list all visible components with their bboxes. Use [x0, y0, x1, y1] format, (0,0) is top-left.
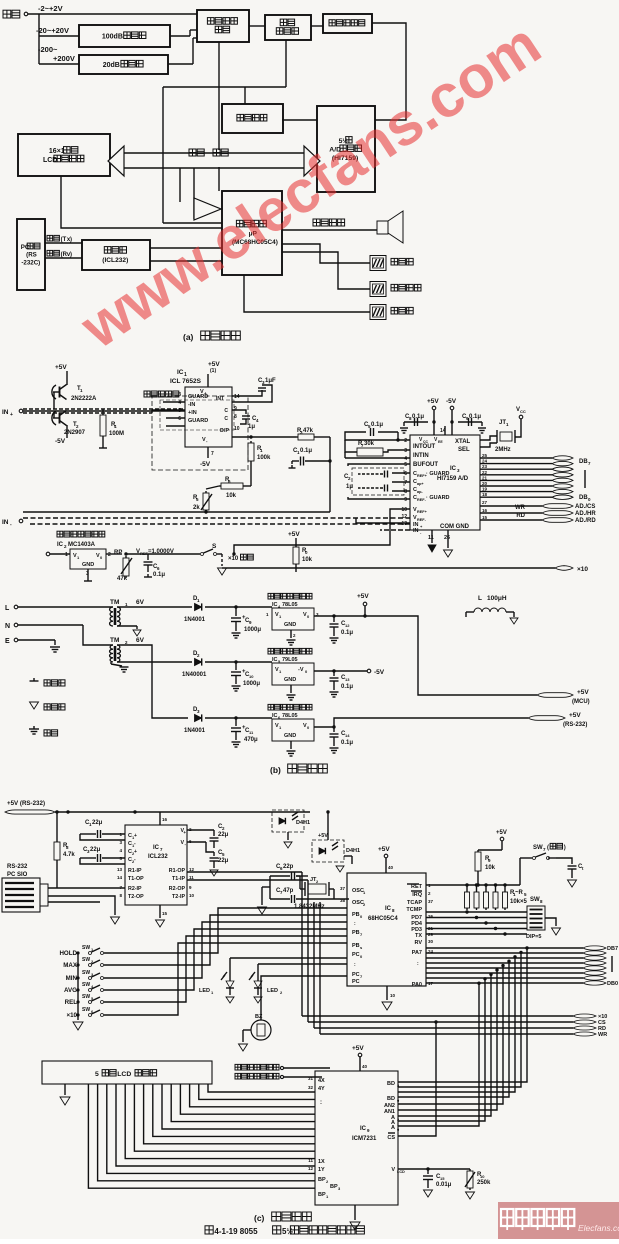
svg-text:+5V: +5V	[378, 846, 390, 853]
svg-text:+5V: +5V	[577, 689, 589, 696]
svg-text:78L05: 78L05	[282, 602, 298, 608]
svg-text:16×1: 16×1	[49, 148, 65, 155]
svg-text:+5V: +5V	[55, 364, 67, 371]
svg-text:D4H1: D4H1	[296, 820, 310, 826]
svg-text:ap+: ap+	[417, 482, 424, 486]
svg-text:1μF: 1μF	[265, 378, 276, 384]
svg-text:RP: RP	[114, 550, 122, 556]
svg-text:11: 11	[308, 1158, 313, 1163]
svg-text:12: 12	[345, 623, 350, 628]
svg-text:79L05: 79L05	[282, 657, 298, 663]
svg-text:BP: BP	[330, 1184, 338, 1190]
svg-text:1X: 1X	[318, 1159, 325, 1165]
svg-text:): )	[564, 845, 566, 851]
svg-text:10: 10	[390, 993, 396, 998]
svg-text:7: 7	[211, 451, 214, 457]
svg-text:SW: SW	[82, 945, 90, 951]
svg-text:+5V (RS-232): +5V (RS-232)	[7, 800, 45, 807]
svg-text:LED: LED	[199, 988, 210, 994]
svg-text:4: 4	[178, 400, 181, 406]
svg-text:13: 13	[345, 677, 350, 682]
svg-text:×10: ×10	[577, 566, 588, 573]
svg-text:32: 32	[308, 1085, 314, 1090]
svg-text:AD./RD: AD./RD	[575, 518, 596, 524]
svg-text:22μ: 22μ	[90, 847, 101, 853]
svg-text:PC: PC	[352, 972, 360, 978]
svg-text:8: 8	[234, 414, 237, 420]
svg-text:100dB: 100dB	[102, 34, 123, 41]
svg-text:RET: RET	[411, 884, 423, 890]
svg-text:15: 15	[440, 1176, 445, 1181]
svg-text:1000μ: 1000μ	[243, 681, 260, 687]
svg-text:SW: SW	[82, 994, 90, 1000]
svg-text:RS-232: RS-232	[7, 864, 28, 870]
svg-text:MAX: MAX	[63, 962, 78, 969]
svg-text:IC: IC	[57, 542, 64, 548]
svg-text:0.1μ: 0.1μ	[341, 630, 353, 636]
svg-text:15: 15	[482, 515, 488, 520]
svg-text:16: 16	[482, 508, 488, 513]
svg-text:-200~: -200~	[38, 45, 58, 54]
svg-text:24: 24	[482, 459, 488, 464]
svg-text:0.1μ: 0.1μ	[153, 572, 165, 578]
svg-text:GND: GND	[284, 622, 296, 628]
svg-text:13: 13	[117, 867, 123, 872]
svg-text:LCD: LCD	[117, 1071, 131, 1078]
svg-text:· GUARD: · GUARD	[426, 495, 450, 501]
svg-text:0.1μ: 0.1μ	[371, 422, 383, 428]
svg-text:+: +	[134, 833, 137, 839]
svg-text:+: +	[204, 391, 207, 396]
svg-text:+IN: +IN	[188, 410, 197, 416]
svg-text:+200V: +200V	[53, 54, 75, 63]
svg-text:LCD: LCD	[397, 1170, 405, 1174]
svg-text:37: 37	[340, 886, 346, 891]
svg-text:19: 19	[482, 487, 488, 492]
svg-text:4-1-19 8055: 4-1-19 8055	[214, 1227, 258, 1236]
svg-text:REF+: REF+	[417, 510, 428, 514]
svg-text:22μ: 22μ	[218, 858, 229, 864]
svg-text:HOLD: HOLD	[59, 950, 77, 957]
svg-text:N: N	[5, 623, 10, 630]
svg-text:~R: ~R	[515, 890, 524, 896]
svg-text:1N4001: 1N4001	[184, 728, 206, 734]
svg-text:25: 25	[482, 453, 488, 458]
svg-text:RV: RV	[414, 940, 422, 946]
svg-text:RD: RD	[516, 513, 525, 519]
svg-text:PB: PB	[352, 912, 360, 918]
svg-text:15: 15	[162, 911, 168, 916]
svg-text:CC: CC	[423, 440, 429, 444]
svg-text:100k: 100k	[257, 455, 271, 461]
svg-text:INT: INT	[216, 396, 224, 402]
svg-text:-5V: -5V	[55, 438, 66, 445]
svg-text:(: (	[547, 845, 549, 851]
svg-text:MIN: MIN	[66, 975, 78, 982]
svg-text:12: 12	[189, 867, 195, 872]
svg-text:SEL: SEL	[458, 447, 470, 453]
svg-text:0.1μ: 0.1μ	[341, 684, 353, 690]
svg-text:DB: DB	[579, 495, 588, 501]
svg-text:1μ: 1μ	[248, 424, 255, 430]
svg-text:-V: -V	[298, 667, 304, 673]
svg-text:-20~+20V: -20~+20V	[36, 26, 69, 35]
svg-text:6V: 6V	[136, 599, 145, 606]
svg-text:INTOUT: INTOUT	[413, 444, 436, 450]
svg-text:10k: 10k	[485, 865, 496, 871]
svg-text:40: 40	[388, 865, 394, 870]
svg-text:10: 10	[189, 893, 195, 898]
svg-text:BD: BD	[387, 1096, 395, 1102]
svg-text:0.01μ: 0.01μ	[436, 1182, 452, 1188]
svg-text:PA0: PA0	[412, 982, 422, 988]
svg-text:IC: IC	[177, 369, 184, 376]
svg-text:IN: IN	[2, 409, 9, 416]
svg-text:AVG: AVG	[64, 987, 77, 994]
svg-text:INTIN: INTIN	[413, 453, 429, 459]
svg-text:PC: PC	[352, 952, 360, 958]
svg-text:6V: 6V	[136, 637, 145, 644]
svg-text:AD./HR: AD./HR	[575, 511, 596, 517]
svg-text:T1-IP: T1-IP	[172, 876, 185, 882]
svg-text:(ICL232): (ICL232)	[102, 257, 128, 264]
svg-text:GND: GND	[82, 562, 94, 568]
svg-text:(a): (a)	[183, 332, 194, 342]
svg-text:GND: GND	[284, 677, 296, 683]
svg-text:12: 12	[401, 514, 407, 520]
svg-text:SW: SW	[82, 957, 90, 963]
svg-text:250k: 250k	[477, 1180, 491, 1186]
svg-text:16: 16	[162, 817, 168, 822]
svg-text:(b): (b)	[270, 765, 281, 775]
svg-text:30: 30	[428, 939, 434, 944]
svg-text:10: 10	[480, 1174, 485, 1179]
svg-text:PC: PC	[21, 244, 30, 251]
svg-text:6: 6	[404, 471, 407, 477]
svg-text:22p: 22p	[283, 864, 294, 870]
svg-text:-IN: -IN	[188, 402, 195, 408]
svg-text:DB7: DB7	[607, 946, 618, 952]
svg-text:-232C): -232C)	[21, 260, 40, 267]
svg-text:10k: 10k	[302, 557, 313, 563]
svg-text:-5V: -5V	[200, 461, 211, 468]
svg-text:18: 18	[482, 492, 488, 497]
svg-text:O/P: O/P	[220, 428, 230, 434]
svg-text:-2~+2V: -2~+2V	[38, 4, 63, 13]
svg-text:AD./CS: AD./CS	[575, 504, 595, 510]
svg-text:31: 31	[308, 1076, 314, 1081]
svg-text:+: +	[183, 830, 186, 835]
svg-text:R1-OP: R1-OP	[169, 868, 186, 874]
svg-text:MC1403A: MC1403A	[68, 542, 96, 548]
svg-text:9: 9	[404, 497, 407, 503]
svg-text:TCAP: TCAP	[407, 900, 422, 906]
svg-text:CC: CC	[520, 409, 526, 414]
svg-text:10k: 10k	[226, 493, 237, 499]
svg-text:BP: BP	[318, 1177, 326, 1183]
svg-text:SW: SW	[82, 970, 90, 976]
svg-text:4.7k: 4.7k	[63, 852, 75, 858]
svg-text:COM GND: COM GND	[440, 524, 470, 530]
svg-text:4Y: 4Y	[318, 1086, 325, 1092]
svg-text:47k: 47k	[303, 428, 314, 434]
svg-text:IC: IC	[272, 602, 278, 608]
svg-text:-5V: -5V	[446, 398, 457, 405]
svg-text:(RS: (RS	[26, 252, 37, 259]
svg-text:11: 11	[428, 535, 434, 541]
svg-text:): )	[70, 237, 72, 243]
svg-text:5½: 5½	[282, 1227, 293, 1236]
svg-text:ICL232: ICL232	[148, 854, 168, 860]
svg-text:D4H1: D4H1	[346, 848, 360, 854]
svg-text:68HC05C4: 68HC05C4	[368, 916, 398, 922]
svg-text:R2-IP: R2-IP	[128, 886, 142, 892]
svg-text:20: 20	[482, 481, 488, 486]
svg-text:PC: PC	[352, 979, 360, 985]
svg-text:2: 2	[108, 552, 111, 558]
svg-text:TCMP: TCMP	[406, 907, 422, 913]
svg-text:3: 3	[178, 392, 181, 398]
svg-text:5: 5	[95, 1071, 99, 1078]
svg-text:LED: LED	[267, 988, 278, 994]
svg-text:14: 14	[345, 733, 350, 738]
svg-text:T2-IP: T2-IP	[172, 894, 185, 900]
svg-text:TM: TM	[110, 599, 119, 606]
svg-text:100μH: 100μH	[487, 595, 507, 602]
svg-text:DIP=5: DIP=5	[526, 934, 541, 940]
svg-text:14: 14	[234, 394, 240, 400]
svg-text:47k: 47k	[117, 576, 128, 582]
svg-text:1N4001: 1N4001	[184, 617, 206, 623]
svg-text:): )	[70, 252, 72, 258]
svg-text:1000μ: 1000μ	[244, 627, 261, 633]
svg-text:78L05: 78L05	[282, 713, 298, 719]
svg-text:WR: WR	[515, 505, 526, 511]
svg-text:38: 38	[340, 898, 346, 903]
svg-text:3: 3	[404, 448, 407, 454]
svg-text:2: 2	[404, 438, 407, 444]
svg-text:SW: SW	[82, 982, 90, 988]
svg-text:+: +	[134, 849, 137, 855]
svg-text:2N2222A: 2N2222A	[71, 396, 97, 402]
svg-text:12: 12	[308, 1166, 314, 1171]
svg-text:R1-IP: R1-IP	[128, 868, 142, 874]
svg-text:2k: 2k	[193, 505, 200, 511]
svg-text:L: L	[5, 605, 10, 612]
svg-text:HI7159 A/D: HI7159 A/D	[437, 476, 469, 482]
svg-text:+5V: +5V	[357, 593, 369, 600]
svg-text:21: 21	[482, 475, 488, 480]
svg-text:×10: ×10	[228, 556, 239, 562]
svg-text:26: 26	[428, 914, 434, 919]
svg-text:23: 23	[482, 464, 488, 469]
svg-text:IC: IC	[272, 713, 278, 719]
svg-text:1Y: 1Y	[318, 1167, 325, 1173]
svg-text:0.1μ: 0.1μ	[300, 448, 312, 454]
svg-text:IRQ: IRQ	[412, 892, 423, 898]
svg-text:ICL 7652S: ICL 7652S	[170, 378, 202, 385]
svg-text:V: V	[391, 1167, 395, 1173]
svg-text:20dB: 20dB	[103, 62, 120, 69]
svg-text:WR: WR	[598, 1032, 607, 1038]
svg-text:S: S	[212, 543, 217, 550]
svg-text:2MHz: 2MHz	[495, 447, 511, 453]
svg-text:(1): (1)	[210, 368, 216, 374]
svg-text:LCD: LCD	[43, 157, 57, 164]
svg-text:100M: 100M	[109, 431, 124, 437]
svg-text:10k×5: 10k×5	[510, 899, 528, 905]
svg-text:22: 22	[482, 470, 488, 475]
svg-text:10: 10	[401, 507, 407, 513]
svg-text:DB0: DB0	[607, 981, 618, 987]
svg-text:1N40001: 1N40001	[182, 672, 207, 678]
svg-text:IC: IC	[385, 906, 392, 912]
svg-text:(MCU): (MCU)	[572, 699, 590, 705]
svg-text:4X: 4X	[318, 1078, 325, 1084]
svg-text:BP: BP	[318, 1192, 326, 1198]
svg-text:+5V: +5V	[288, 531, 300, 538]
svg-text:47p: 47p	[283, 888, 294, 894]
svg-text:26: 26	[444, 535, 450, 541]
svg-text:PB: PB	[352, 930, 360, 936]
svg-text:+5V: +5V	[496, 830, 507, 836]
svg-text:8: 8	[404, 489, 407, 495]
svg-text:XTAL: XTAL	[455, 439, 471, 445]
svg-text:DB: DB	[579, 459, 588, 465]
svg-text:×10: ×10	[67, 1012, 78, 1019]
svg-text:L: L	[478, 595, 482, 602]
svg-text:22μ: 22μ	[218, 832, 229, 838]
svg-text:CS: CS	[387, 1135, 395, 1141]
svg-text:5: 5	[404, 462, 407, 468]
svg-text:0.1μ: 0.1μ	[341, 740, 353, 746]
svg-text:IN: IN	[413, 528, 419, 534]
svg-text:TM: TM	[110, 637, 119, 644]
svg-text::: :	[320, 1100, 322, 1106]
svg-text:TX: TX	[415, 933, 422, 939]
svg-text:REL: REL	[65, 999, 78, 1006]
svg-text:R2-OP: R2-OP	[169, 886, 186, 892]
svg-text:IC: IC	[153, 845, 160, 851]
svg-text:IC: IC	[450, 466, 457, 472]
svg-text:1: 1	[65, 552, 68, 558]
svg-text:13: 13	[401, 521, 407, 527]
svg-text:C: C	[224, 416, 228, 422]
svg-text:SW: SW	[82, 1007, 90, 1013]
svg-text:6: 6	[178, 416, 181, 422]
svg-text:GUARD: GUARD	[188, 418, 208, 424]
svg-text:PA7: PA7	[412, 950, 422, 956]
svg-text:GND: GND	[284, 733, 296, 739]
svg-text:14: 14	[117, 875, 123, 880]
svg-text:11: 11	[189, 875, 194, 880]
svg-text:ap-: ap-	[417, 490, 423, 494]
svg-text:SW: SW	[530, 897, 540, 903]
svg-text:IC: IC	[272, 657, 278, 663]
svg-text:+5V: +5V	[569, 712, 581, 719]
svg-text:(T: (T	[61, 237, 67, 243]
svg-text:ICM7231: ICM7231	[352, 1136, 377, 1142]
svg-text:10: 10	[249, 674, 254, 679]
svg-text:BD: BD	[387, 1081, 395, 1087]
svg-text:A: A	[391, 1125, 395, 1131]
svg-text:E: E	[5, 638, 10, 645]
svg-text:40: 40	[362, 1064, 368, 1069]
svg-text:5: 5	[178, 408, 181, 414]
svg-text:Elecfans.com: Elecfans.com	[578, 1223, 619, 1233]
svg-text:37: 37	[428, 899, 434, 904]
svg-text:T1-OP: T1-OP	[128, 876, 144, 882]
svg-text:(RS-232): (RS-232)	[563, 722, 587, 728]
svg-text:+5V: +5V	[352, 1045, 364, 1052]
svg-text:1μ: 1μ	[346, 484, 353, 490]
svg-text:PC SIO: PC SIO	[7, 872, 28, 878]
svg-text:470μ: 470μ	[244, 737, 258, 743]
svg-text:-5V: -5V	[374, 669, 385, 676]
svg-text:SW: SW	[533, 845, 543, 851]
svg-text:7: 7	[404, 480, 407, 486]
svg-text:IN: IN	[2, 519, 9, 526]
svg-text:9: 9	[234, 406, 237, 412]
svg-text:22μ: 22μ	[92, 820, 103, 826]
svg-text:EE: EE	[438, 440, 443, 444]
svg-text:(c): (c)	[254, 1213, 265, 1223]
svg-text:+5V: +5V	[318, 833, 328, 839]
svg-text:10: 10	[234, 426, 240, 432]
svg-text:C: C	[224, 408, 228, 414]
svg-text:T2-OP: T2-OP	[128, 894, 144, 900]
svg-text:IC: IC	[360, 1126, 367, 1132]
svg-text:+: +	[10, 412, 13, 418]
svg-text:+5V: +5V	[208, 361, 220, 368]
svg-text:27: 27	[482, 500, 488, 505]
svg-text:BZ: BZ	[255, 1014, 263, 1020]
svg-text:30k: 30k	[364, 441, 375, 447]
svg-text:PB: PB	[352, 943, 360, 949]
svg-text:+5V: +5V	[427, 398, 439, 405]
svg-text:BUFOUT: BUFOUT	[413, 462, 438, 468]
